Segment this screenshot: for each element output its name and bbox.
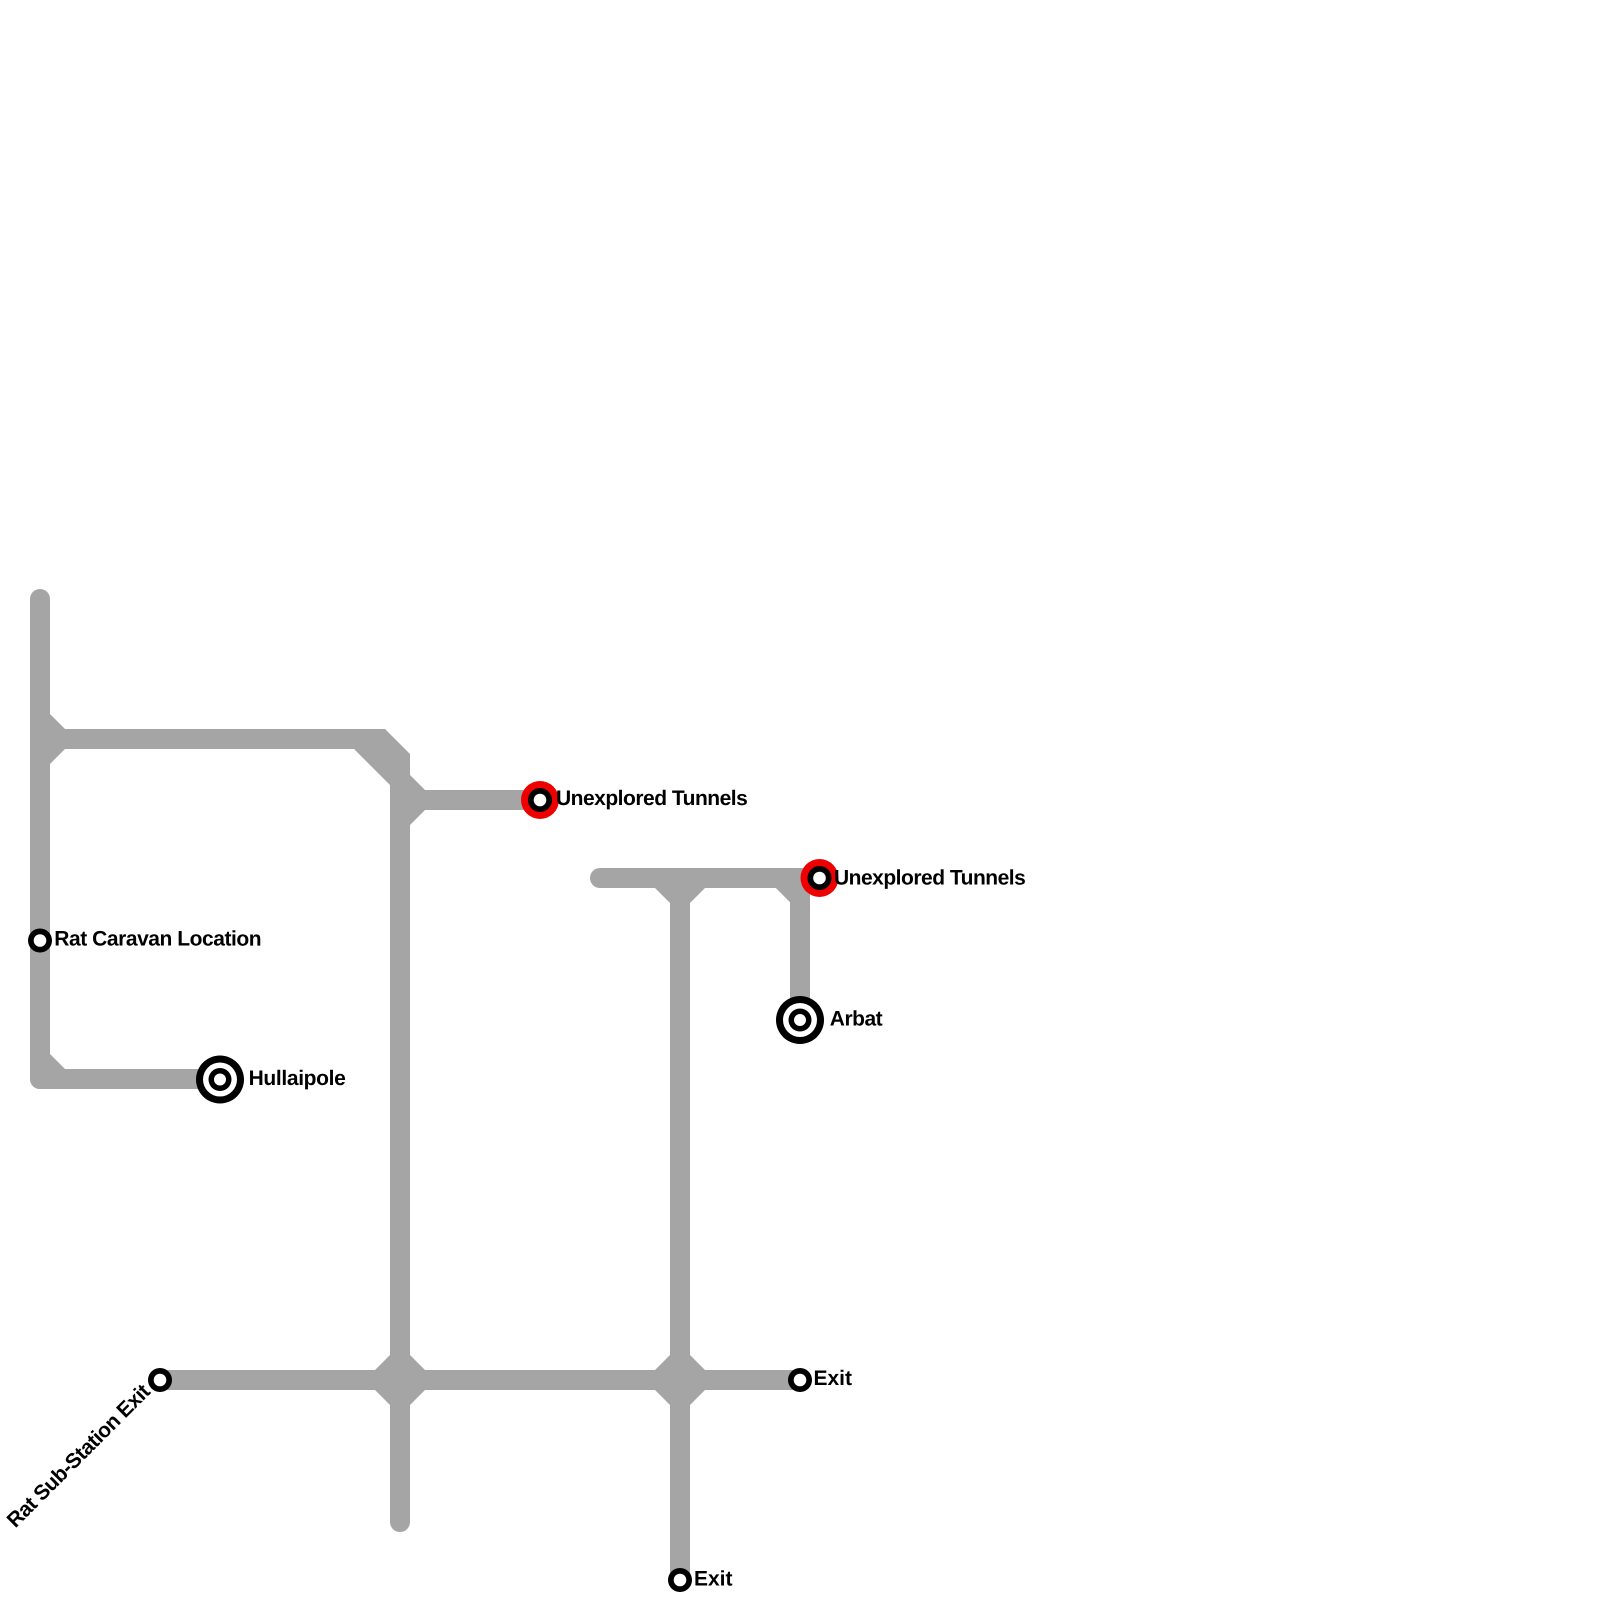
corner chamfer at (40,1079): [50, 1054, 65, 1069]
junction flare at (680,878) T-junction: [655, 888, 705, 903]
station Exit bottom (680,1580): [668, 1568, 692, 1592]
junction octagon at (400,1380) crossing: [375, 1355, 425, 1405]
svg-text:Rat Caravan Location: Rat Caravan Location: [54, 928, 261, 951]
svg-text:Exit: Exit: [694, 1568, 733, 1591]
svg-text:Unexplored Tunnels: Unexplored Tunnels: [834, 867, 1025, 890]
wire: main horizontal line y=1380: [160, 1370, 800, 1390]
svg-text:Hullaipole: Hullaipole: [249, 1067, 346, 1090]
wire: horizontal line y=739: [40, 729, 385, 749]
svg-text:Unexplored Tunnels: Unexplored Tunnels: [556, 787, 747, 810]
station Exit right (800,1380): [788, 1368, 812, 1392]
station Unexplored Tunnels 1 (540,800): [521, 781, 559, 819]
station Rat Sub-Station Exit (160,1380): [148, 1368, 172, 1392]
svg-text:Arbat: Arbat: [830, 1008, 883, 1031]
station Arbat (800,1020): [776, 996, 824, 1044]
wire: horizontal line y=878: [600, 868, 819, 888]
junction flare at (400,800) T-junction: [410, 775, 425, 825]
wire: Arbat branch diagonal and vertical: [780, 878, 800, 1002]
station Rat Caravan Location (40,940.5): [28, 929, 52, 953]
wire: vertical line x=680: [670, 878, 690, 1580]
junction octagon at (680,1380) crossing: [655, 1355, 705, 1405]
wire: central vertical line x=400: [390, 760, 410, 1522]
junction flare at (40,739) T-junction: [50, 714, 65, 764]
wire: bottom horizontal to Hullaipole y=1079: [40, 1069, 221, 1089]
wire: left vertical line x=40: [30, 599, 50, 1079]
svg-text:Exit: Exit: [813, 1367, 852, 1390]
station Unexplored Tunnels 2 (819.5,878): [801, 859, 839, 897]
bend piece (385,739)-(400,759) wide diagonal: [354, 729, 410, 785]
wire: spur to Unexplored Tunnels 1 y=800: [400, 790, 540, 810]
station Hullaipole (220,1079.5): [196, 1056, 244, 1104]
